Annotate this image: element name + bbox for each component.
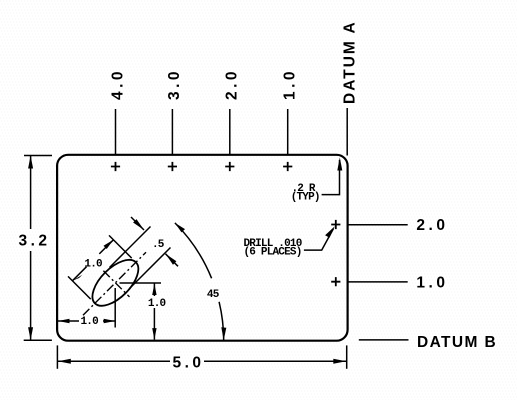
slot length arrow lower xyxy=(72,275,82,281)
svg-text:(6 PLACES): (6 PLACES) xyxy=(244,246,302,258)
1.0 slot length dimension line xyxy=(72,240,113,281)
5.0 arrow right xyxy=(333,359,346,364)
plate outline (5.0 x 3.2 rounded rectangle) xyxy=(57,155,348,341)
5.0 right extension line xyxy=(346,345,348,368)
drill leader xyxy=(304,229,334,251)
svg-text:1.0: 1.0 xyxy=(148,298,166,310)
hole 5 right top xyxy=(331,220,340,229)
5.0 dimension line xyxy=(58,360,347,362)
3.2 top extension line xyxy=(24,155,52,157)
1.0 horizontal dimension (left edge to slot center) xyxy=(58,320,115,322)
corner radius leader arrow xyxy=(337,158,342,171)
hole + marks top row xyxy=(111,162,341,286)
svg-text:1.0: 1.0 xyxy=(282,68,299,100)
slot length extension line upper xyxy=(109,235,132,258)
45 degree arc lower segment xyxy=(219,302,224,341)
.5 arrow lower xyxy=(166,254,177,265)
right tick 1.0 xyxy=(348,281,408,283)
svg-text:3.0: 3.0 xyxy=(166,68,183,100)
.5 arrow upper xyxy=(133,219,144,230)
svg-text:1.0: 1.0 xyxy=(416,274,448,291)
tick line 3.0 xyxy=(171,109,173,154)
svg-text:DATUM B: DATUM B xyxy=(417,334,497,351)
tick line 1.0 xyxy=(287,109,289,154)
45 degree arc upper segment xyxy=(175,223,212,278)
svg-text:5.0: 5.0 xyxy=(173,355,205,372)
3.2 arrow up xyxy=(28,156,33,169)
slot length arrow upper xyxy=(104,240,114,249)
45 arc arrow top xyxy=(175,223,185,233)
hole 3 xyxy=(225,162,234,171)
.5 width extension line lower xyxy=(130,248,171,289)
tick line 4.0 xyxy=(115,109,117,154)
corner radius leader xyxy=(322,160,340,195)
1.0 v arrow down xyxy=(152,328,156,340)
hole 4 xyxy=(283,162,292,171)
tick line 2.0 xyxy=(229,109,231,154)
slot length extension line lower xyxy=(68,276,91,299)
svg-text:3.2: 3.2 xyxy=(19,233,51,250)
slot center horizontal extension xyxy=(120,282,162,284)
svg-text:2.0: 2.0 xyxy=(416,217,448,234)
hole 6 right bottom xyxy=(331,277,340,286)
hole 2 xyxy=(168,162,177,171)
svg-text:45: 45 xyxy=(207,289,220,301)
1.0 v arrow up xyxy=(152,284,156,296)
datum B tick xyxy=(359,339,409,341)
3.2 bottom extension line xyxy=(24,339,52,341)
svg-text:1.0: 1.0 xyxy=(84,259,102,271)
slot center vertical extension xyxy=(114,288,116,328)
svg-text:(TYP): (TYP) xyxy=(291,192,320,204)
.5 arrow upper tail xyxy=(131,217,144,230)
3.2 arrow down xyxy=(28,327,33,340)
45 arc arrow bottom xyxy=(221,327,226,340)
1.0 h arrow left xyxy=(58,319,70,323)
slot ellipse xyxy=(85,252,147,314)
1.0 h arrow right xyxy=(104,319,116,323)
svg-text:2.0: 2.0 xyxy=(224,68,241,100)
datum A extension line xyxy=(346,108,348,156)
svg-text:1.0: 1.0 xyxy=(81,316,99,328)
3.2 dimension line xyxy=(30,156,32,341)
svg-text:DATUM A: DATUM A xyxy=(341,20,358,104)
right tick 2.0 xyxy=(348,224,408,226)
svg-text:.5: .5 xyxy=(152,239,165,251)
.5 arrow lower tail xyxy=(166,254,179,266)
5.0 arrow left xyxy=(58,359,71,364)
drill leader arrow xyxy=(325,226,335,238)
5.0 left extension line xyxy=(56,345,58,368)
slot major centerline xyxy=(83,252,146,315)
svg-text:4.0: 4.0 xyxy=(109,68,126,100)
slot minor centerline xyxy=(103,271,129,297)
.5 width extension line upper xyxy=(110,227,151,268)
1.0 vertical dimension (slot center to bottom edge) xyxy=(153,284,155,340)
hole 1 xyxy=(111,162,120,171)
